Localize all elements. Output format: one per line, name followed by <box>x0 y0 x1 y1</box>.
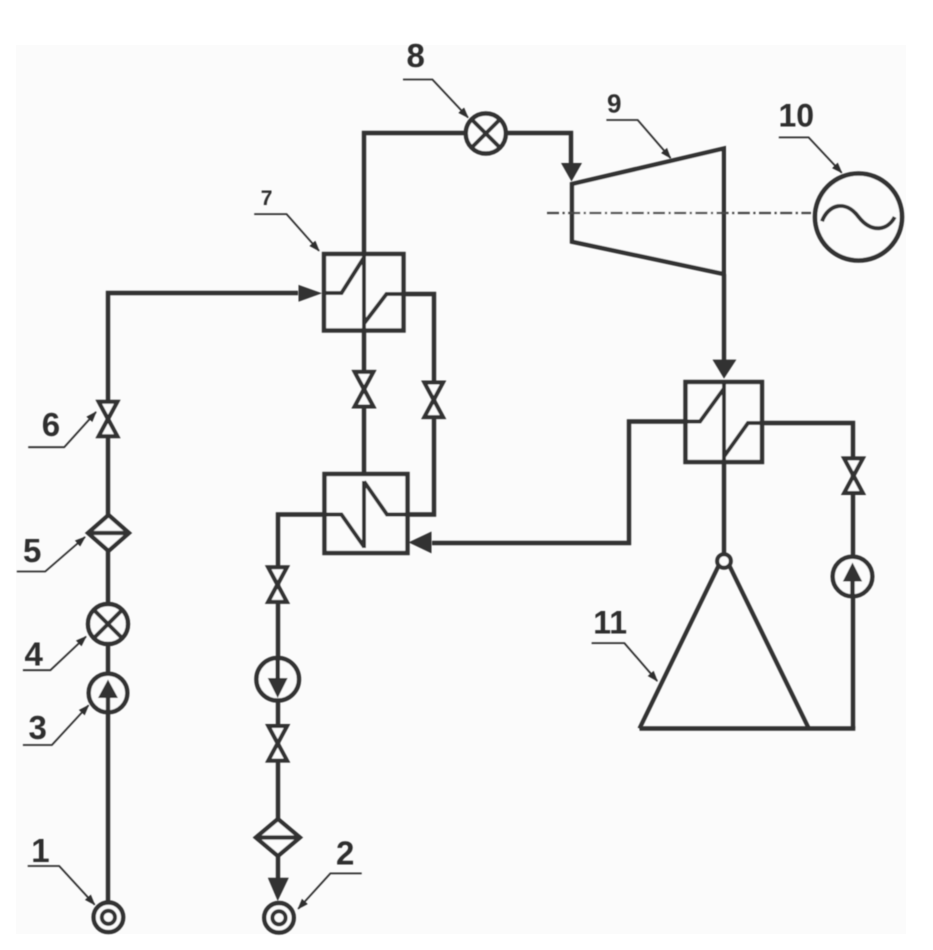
svg-text:5: 5 <box>23 532 41 569</box>
svg-text:8: 8 <box>407 37 425 74</box>
svg-text:11: 11 <box>593 604 627 640</box>
svg-text:1: 1 <box>31 832 49 869</box>
svg-text:2: 2 <box>336 835 354 872</box>
svg-text:10: 10 <box>779 97 815 133</box>
svg-text:7: 7 <box>261 187 273 210</box>
svg-text:4: 4 <box>25 636 44 673</box>
svg-text:3: 3 <box>29 709 47 746</box>
svg-text:9: 9 <box>607 89 621 119</box>
svg-text:6: 6 <box>42 406 60 443</box>
